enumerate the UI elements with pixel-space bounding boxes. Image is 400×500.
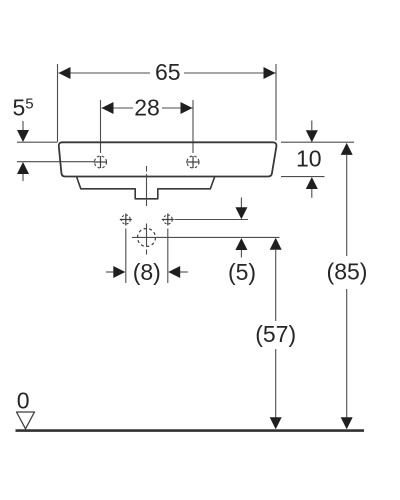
floor datum triangle <box>17 412 35 429</box>
dimension (57) line upper segment <box>275 249 277 321</box>
dimension 10 lower arrowhead <box>306 177 318 189</box>
dimension (8) extension line left <box>125 229 127 284</box>
dimension (57) lower arrowhead <box>270 417 282 429</box>
svg-text:65: 65 <box>155 59 181 85</box>
dimension 65 line left segment <box>59 72 151 74</box>
siphon centre line upper dash <box>146 166 148 172</box>
tap hole left cross <box>94 156 108 168</box>
dimension 65 extension line left <box>57 64 59 142</box>
dimension (85) upper arrowhead <box>341 143 353 155</box>
dimension 5.5 upper arrow stem <box>22 121 24 131</box>
dimension (57) upper arrowhead <box>270 238 282 250</box>
dimension (85) line upper segment <box>346 154 348 256</box>
washbasin body outline <box>59 142 277 176</box>
dimension 5.5 upper arrowhead <box>17 130 29 142</box>
dimension 10 upper reference line <box>281 141 354 143</box>
svg-text:55: 55 <box>13 95 34 121</box>
tap hole right cross <box>186 156 200 168</box>
dimension 28 arrowhead right <box>181 102 193 114</box>
dimension 28 extension line left <box>100 100 102 153</box>
fixing hole left dashed circle <box>121 215 130 224</box>
dimension 65 arrowhead right <box>264 67 276 79</box>
svg-text:(8): (8) <box>133 259 161 285</box>
dimension 5.5 lower arrowhead <box>17 162 29 174</box>
dimension 28 extension line right <box>192 100 194 153</box>
dimension (8) right arrowhead <box>168 266 180 278</box>
dimension 65 extension line right <box>275 64 277 141</box>
drain level reference line <box>132 236 280 238</box>
dimension 10 upper arrow stem <box>311 121 313 131</box>
dimension (5) lower arrowhead <box>235 238 247 250</box>
dimension 28 line left segment <box>102 107 134 109</box>
dimension 10 lower arrow stem <box>311 189 313 198</box>
drain hole vertical centre line <box>146 224 148 247</box>
dimension 28 arrowhead left <box>102 102 114 114</box>
floor line <box>16 429 365 432</box>
dimension 65 arrowhead left <box>59 67 71 79</box>
dimension 5.5 lower arrow stem <box>22 174 24 181</box>
drain hole dashed circle <box>138 229 156 247</box>
svg-text:0: 0 <box>17 388 30 414</box>
tap hole left dashed circle <box>95 156 107 168</box>
dimension (8) left arrowhead <box>113 266 125 278</box>
drain hole centre line lower dash <box>146 250 148 255</box>
dimension (85) lower arrowhead <box>341 417 353 429</box>
dimension (85) line lower segment <box>346 289 348 418</box>
dimension 28 line right segment <box>162 107 193 109</box>
dimension 5.5 upper reference line <box>17 141 57 143</box>
dimension (5) upper arrow stem <box>240 198 242 209</box>
dimension 5.5 lower reference line <box>17 161 95 163</box>
dimension (57) line lower segment <box>275 349 277 418</box>
fixing hole level reference line <box>175 219 249 221</box>
dimension 10 upper arrowhead <box>306 130 318 142</box>
svg-text:28: 28 <box>134 95 160 121</box>
svg-text:(5): (5) <box>228 259 256 285</box>
svg-text:(85): (85) <box>327 258 368 284</box>
fixing hole right cross <box>162 214 174 226</box>
fixing hole left cross <box>120 214 132 226</box>
dimension (5) lower arrow stem <box>240 250 242 258</box>
dimension (5) upper arrowhead <box>235 207 247 219</box>
svg-text:(57): (57) <box>255 321 296 347</box>
dimension (8) extension line right <box>167 229 169 284</box>
dimension 65 line right segment <box>184 72 276 74</box>
tap hole right dashed circle <box>187 156 199 168</box>
dimension (8) right arrow tail <box>180 271 188 273</box>
siphon centre line main segment <box>146 174 148 206</box>
fixing hole right dashed circle <box>163 215 172 224</box>
dimension (8) left arrow tail <box>106 271 114 273</box>
svg-text:10: 10 <box>296 146 322 172</box>
dimension 10 lower reference line <box>281 176 325 178</box>
washbasin underside profile with siphon cover <box>77 177 215 199</box>
